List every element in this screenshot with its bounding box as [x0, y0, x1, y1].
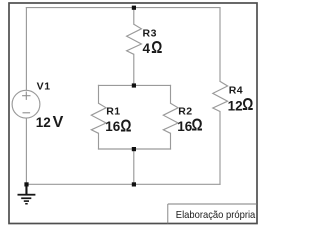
wire R2 top lead — [170, 85, 172, 103]
wire left rail lower — [25, 118, 27, 184]
svg-text:V1: V1 — [37, 80, 51, 92]
svg-text:R4: R4 — [229, 85, 243, 97]
wire R3 bottom lead — [133, 54, 135, 85]
svg-text:R1: R1 — [106, 106, 120, 118]
wire R3 top lead — [133, 8, 135, 25]
resistor R1 — [91, 103, 106, 133]
svg-text:Ω: Ω — [192, 116, 203, 135]
node bottom rail junction — [132, 182, 136, 186]
node ground junction — [24, 182, 28, 186]
wire R1 bottom lead — [98, 133, 100, 149]
wire parallel box top — [99, 84, 171, 86]
wire right rail lower — [219, 112, 221, 185]
svg-text:Ω: Ω — [151, 39, 162, 58]
svg-text:12V: 12V — [36, 114, 64, 131]
svg-text:Ω: Ω — [242, 96, 253, 115]
ground — [18, 184, 36, 204]
svg-text:Elaboração própria: Elaboração própria — [176, 209, 256, 221]
wire right rail upper — [219, 8, 221, 82]
wire middle branch to bottom rail — [133, 149, 135, 184]
svg-text:R2: R2 — [178, 106, 192, 118]
resistor R4 — [213, 81, 228, 111]
node parallel top junction — [132, 83, 136, 87]
svg-text:4: 4 — [143, 41, 151, 56]
wire R2 bottom lead — [170, 133, 172, 149]
resistor R3 — [127, 24, 142, 54]
resistor R2 — [163, 103, 178, 133]
svg-text:12: 12 — [228, 98, 243, 113]
voltage source V1 — [12, 90, 40, 118]
caption box — [168, 204, 257, 224]
wire parallel box bottom — [99, 148, 171, 150]
svg-text:Ω: Ω — [120, 117, 131, 136]
svg-text:16: 16 — [105, 119, 121, 134]
wire R1 top lead — [98, 85, 100, 103]
node top junction — [132, 6, 136, 10]
svg-text:16: 16 — [177, 119, 193, 134]
node parallel bottom junction — [132, 147, 136, 151]
wire bottom rail — [26, 183, 220, 185]
wire left rail upper — [25, 8, 27, 91]
wire top rail — [26, 7, 220, 9]
